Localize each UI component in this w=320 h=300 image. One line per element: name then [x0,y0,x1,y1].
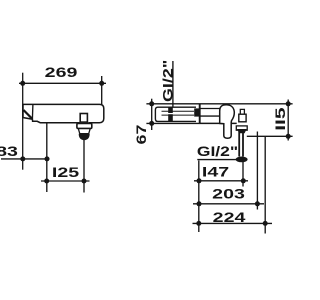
knob band [77,123,92,128]
svg-text:67: 67 [134,125,150,145]
top reference line [146,103,292,105]
hand shower outlet knob: stem [80,114,87,123]
dim dot left 269 [20,81,25,86]
svg-text:269: 269 [45,65,78,81]
body bottom (side) [200,122,237,124]
dim 67 vertical line [151,99,153,130]
coupling taper dark [237,129,247,133]
hose union dark blob [236,157,248,163]
dimension line 224 [193,222,273,224]
leader line G1/2 bottom [197,159,241,161]
bottom front reference line [247,135,293,137]
wall plane vertical [199,104,201,124]
lever handle (side) [220,105,235,138]
extension from knob down to 125 [83,140,85,193]
holder box [239,114,246,122]
lower reference line (left) [146,122,199,124]
hose line right [242,132,244,157]
wall section black square [194,108,199,116]
holder stem [240,109,244,114]
extension line left (body left edge + down to 83 dim) [22,73,24,170]
knob dark tip [79,134,90,140]
nut notch [168,113,173,115]
dim dot 67 bottom [149,121,154,126]
body bottom left segment [23,118,79,123]
dim dot 147 left [197,178,202,183]
dim dot right 269 [99,81,104,86]
pipe seam lower [162,114,195,116]
svg-text:I25: I25 [52,165,79,181]
dim dot 83 left [20,156,25,161]
dim dot 224 right [263,221,268,226]
body left edge thick [22,104,24,117]
extension 224 right [264,136,266,233]
dimension line 147 [194,180,248,182]
dim dot 203 left [197,201,202,206]
dim dot 83 right [45,156,50,161]
svg-text:203: 203 [212,186,245,202]
svg-text:I47: I47 [202,164,229,180]
pipe seam upper [162,110,195,112]
dim dot 125 left [44,179,49,184]
extension mid (83 right / 125 left) [46,123,48,192]
dimension line 83 [1,158,50,160]
dim 115 vertical line [287,100,289,141]
dimension line 203 [193,203,264,205]
dimension line 269 [19,82,106,84]
dimension line 125 [41,180,90,182]
hose line left [238,132,240,157]
union nut dark [168,107,173,121]
left extension of bottom dims [198,161,200,233]
extension below union [242,162,244,187]
extension line right of 269 [101,76,103,104]
body seam upper [200,108,221,110]
wall pipe outline [155,107,196,121]
wedge hatch diagonal [24,110,33,119]
faucet body outline (front) [23,104,104,122]
dim dot 125 right [82,179,87,184]
dim dot 203 right [255,201,260,206]
dim dot 67 top [149,101,154,106]
extension 203 right [256,132,258,210]
wedge divider line [31,104,34,119]
svg-text:83: 83 [0,144,18,160]
coupling band [236,126,247,130]
svg-text:II5: II5 [272,107,288,130]
body seam lower [200,115,220,117]
leader line of G1/2 top [172,61,174,107]
svg-text:GI/2": GI/2" [197,145,238,160]
dim dot 224 left [196,221,201,226]
dim dot 115 top [286,101,291,106]
dim dot 115 bottom [286,134,291,139]
knob taper [78,129,90,134]
dim dot 147 right [241,178,246,183]
